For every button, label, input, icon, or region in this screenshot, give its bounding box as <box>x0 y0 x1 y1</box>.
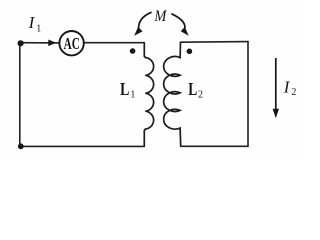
AC source V1 <box>59 31 83 55</box>
inductor L2 coil <box>164 42 181 146</box>
wire top right (L2 to right edge) <box>181 41 249 44</box>
svg-text:2: 2 <box>291 87 296 98</box>
svg-text:L: L <box>188 79 197 99</box>
arrowhead M right <box>181 27 189 36</box>
label L2 <box>188 79 203 100</box>
svg-text:M: M <box>153 8 167 25</box>
node top-left junction <box>18 40 24 46</box>
arrow I2 current direction <box>275 58 277 110</box>
polarity dot L1 <box>130 48 136 54</box>
svg-text:1: 1 <box>36 23 41 34</box>
label I1 <box>28 13 42 34</box>
svg-text:2: 2 <box>198 89 203 100</box>
label I2 <box>283 78 297 98</box>
wire top left (node to AC source) <box>20 42 60 44</box>
wire left vertical <box>19 43 21 146</box>
wire right vertical <box>247 42 249 147</box>
wire AC source to L1 top <box>84 42 145 44</box>
svg-text:AC: AC <box>64 34 80 53</box>
polarity dot L2 <box>187 49 193 55</box>
wire bottom right <box>181 145 248 147</box>
wire M arrow right curve <box>171 14 185 30</box>
svg-text:I: I <box>28 13 36 32</box>
node bottom-left junction <box>18 143 24 149</box>
wire bottom left <box>20 145 145 147</box>
inductor L1 coil <box>144 43 153 147</box>
svg-text:1: 1 <box>130 89 135 100</box>
wire M arrow left curve <box>139 12 152 30</box>
label L1 <box>120 79 135 100</box>
arrowhead M left <box>134 27 142 36</box>
svg-text:L: L <box>120 79 129 99</box>
arrow I1 current direction <box>48 40 56 47</box>
svg-text:I: I <box>283 78 291 97</box>
